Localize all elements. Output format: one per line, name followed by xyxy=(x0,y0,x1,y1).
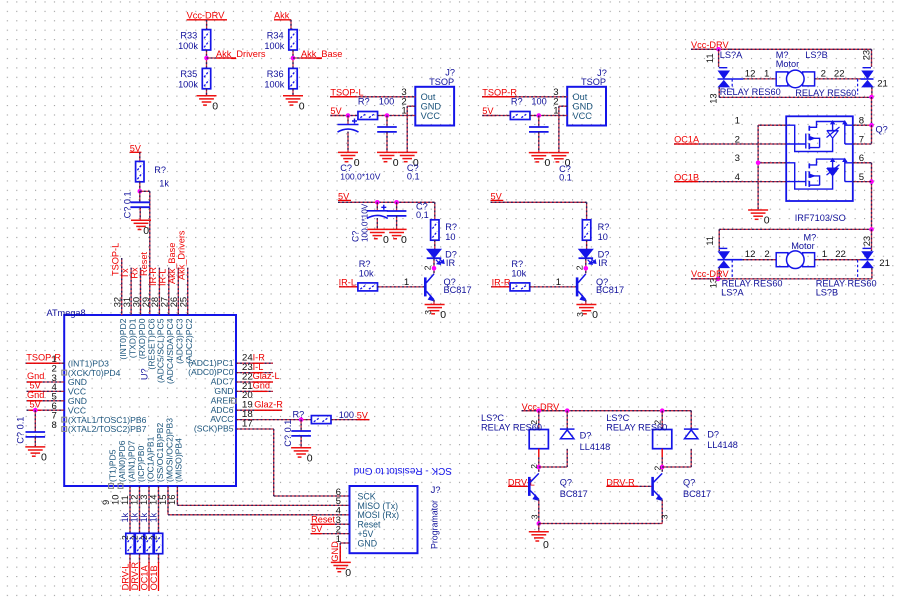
net DRV-R wire xyxy=(607,485,652,487)
unconnected pin 8 square xyxy=(62,427,67,432)
wire bottom rail top motor xyxy=(719,96,871,98)
svg-text:R?: R? xyxy=(154,165,166,175)
svg-text:Rx: Rx xyxy=(129,267,139,279)
diode D? LL4148 right xyxy=(684,429,699,439)
transistor Q? BC817 relay left xyxy=(529,473,539,500)
svg-text:0: 0 xyxy=(545,157,551,169)
svg-text:0.1: 0.1 xyxy=(559,172,572,182)
wire junction to ceramic xyxy=(396,202,398,211)
wire rail corner down to contact LS?B xyxy=(871,49,873,67)
junction reset node xyxy=(138,189,143,194)
wire electrolytic to ground xyxy=(347,132,349,153)
svg-text:(ICP)PB0: (ICP)PB0 xyxy=(136,445,146,482)
wire junction to electrolytic xyxy=(376,202,378,211)
svg-text:1: 1 xyxy=(764,68,769,79)
svg-text:LS?A: LS?A xyxy=(720,50,743,60)
svg-text:5V: 5V xyxy=(30,399,42,409)
ground 0 ceramic IR left xyxy=(387,229,407,238)
resistor R? 10 IR left xyxy=(431,220,439,240)
transistor Q? BC817 IR left xyxy=(425,274,434,301)
unconnected pin 7 square xyxy=(62,417,67,422)
wire net Akk_Drivers to pin 25 xyxy=(187,268,189,315)
relay coil LS?C left xyxy=(529,430,548,449)
svg-text:Akk_Drivers: Akk_Drivers xyxy=(216,49,266,59)
svg-text:100.0*10V: 100.0*10V xyxy=(361,203,370,242)
junction Akk_Base xyxy=(291,56,296,61)
junction at ceramic C? xyxy=(385,113,390,118)
dashed actuator LS?A bottom xyxy=(731,260,733,277)
svg-text:DRV-R: DRV-R xyxy=(606,477,635,487)
svg-text:BC817: BC817 xyxy=(444,285,472,295)
svg-text:0: 0 xyxy=(307,452,313,464)
svg-text:2: 2 xyxy=(130,535,140,540)
wire 5V rail to resistor xyxy=(330,115,358,117)
unconnected pin 20 square xyxy=(231,398,236,403)
svg-text:(ADC4/SDA)PC4: (ADC4/SDA)PC4 xyxy=(165,318,175,384)
svg-text:LS?B: LS?B xyxy=(816,288,838,298)
svg-text:1: 1 xyxy=(822,249,827,260)
net Gnd wire pin 3 xyxy=(27,381,65,383)
wire ceramic to ground xyxy=(386,132,388,153)
svg-text:1k: 1k xyxy=(130,512,140,522)
svg-text:11: 11 xyxy=(704,53,715,63)
svg-text:11: 11 xyxy=(704,236,715,246)
svg-text:23: 23 xyxy=(861,50,872,60)
wire net IR-L to pin 27 xyxy=(168,268,170,315)
junction emitter ground rail xyxy=(537,521,542,526)
svg-text:2: 2 xyxy=(120,535,130,540)
svg-text:(AIN1)PD7: (AIN1)PD7 xyxy=(126,440,136,482)
svg-text:Motor: Motor xyxy=(776,59,800,69)
svg-text:R36: R36 xyxy=(267,69,284,79)
resistor R36 xyxy=(289,68,297,88)
svg-text:RELAY RES60: RELAY RES60 xyxy=(795,88,856,98)
wire emitter to ground xyxy=(585,300,587,305)
transistor Q? BC817 relay right xyxy=(653,473,663,500)
svg-text:1k: 1k xyxy=(139,512,149,522)
svg-text:21: 21 xyxy=(879,258,890,269)
unconnected pin 9 square xyxy=(109,484,114,489)
svg-text:IR-L: IR-L xyxy=(339,277,356,287)
ground 0 relay drivers xyxy=(529,532,549,541)
svg-text:IR-L: IR-L xyxy=(158,269,168,286)
wire common emitter rail xyxy=(539,523,662,525)
svg-text:OC1B: OC1B xyxy=(149,565,159,590)
wire resistor to LED xyxy=(586,240,588,249)
wire junction to electrolytic cap xyxy=(347,116,349,125)
svg-text:Glaz-R: Glaz-R xyxy=(254,399,283,409)
svg-text:13: 13 xyxy=(708,93,719,103)
junction top rail right bottom motor xyxy=(869,227,874,232)
resistor R? 1k reset xyxy=(136,161,144,181)
wire junction down to contact LS?A xyxy=(718,49,720,67)
svg-text:J?: J? xyxy=(431,485,441,495)
wire resistor to 5V label xyxy=(331,419,369,421)
svg-text:100.0*10V: 100.0*10V xyxy=(340,171,380,181)
net IR-R wire xyxy=(491,286,510,288)
svg-text:R35: R35 xyxy=(180,69,197,79)
wire diode anode return right xyxy=(662,466,691,468)
resistor R33 xyxy=(202,30,210,50)
wire to coil LS?C right xyxy=(661,411,663,430)
svg-text:2: 2 xyxy=(652,466,662,471)
net wire pin 16 MISO to programmer xyxy=(176,486,178,505)
svg-text:5V: 5V xyxy=(482,106,494,116)
svg-text:100k: 100k xyxy=(178,41,198,51)
wire contact LS?B to Vcc rail xyxy=(871,268,873,279)
wire pin 14 to 1k resistor xyxy=(158,486,160,534)
wire ceramic to ground xyxy=(396,216,398,230)
motor M? top xyxy=(776,70,814,88)
ground 0 electrolytic IR left xyxy=(367,229,387,238)
svg-text:TSOP: TSOP xyxy=(429,77,454,87)
svg-text:5V: 5V xyxy=(330,106,342,116)
resistor R35 xyxy=(202,68,210,88)
wire Vcc-DRV top rail xyxy=(730,48,871,50)
ground 0 IR right transistor xyxy=(576,305,596,314)
wire to coil LS?C left xyxy=(538,411,540,430)
LED D? IR left xyxy=(427,249,444,264)
net 5V wire programmer xyxy=(311,533,350,535)
svg-text:VCC: VCC xyxy=(573,111,593,121)
wire 5V rail IR left xyxy=(338,201,435,203)
wire Vcc-DRV bottom rail xyxy=(691,278,872,280)
wire GND pin 2 to ground xyxy=(559,105,567,107)
svg-text:3: 3 xyxy=(735,153,740,164)
net wire pin 15 MOSI to programmer xyxy=(167,486,169,515)
junction bottom rail right top motor xyxy=(869,95,874,100)
svg-text:R34: R34 xyxy=(267,31,284,41)
ground 0 on TSOP-R pin 2 xyxy=(549,153,569,162)
junction pin 8 xyxy=(869,123,874,128)
junction coil collector diode left xyxy=(537,465,542,470)
wire electrolytic to ground xyxy=(376,218,378,229)
svg-text:DRV-R: DRV-R xyxy=(130,562,140,591)
wire C? to ground xyxy=(139,207,141,220)
svg-text:Akk_Drivers: Akk_Drivers xyxy=(177,230,187,280)
wire diode anode return left xyxy=(539,466,567,468)
wire 5V rail to resistor xyxy=(482,115,510,117)
svg-text:23: 23 xyxy=(861,236,872,246)
capacitor C? 100.0*10V electrolytic xyxy=(338,119,359,133)
svg-text:IR-R: IR-R xyxy=(492,277,511,287)
wire junction to C? 0.1 xyxy=(34,410,36,432)
wire net TSOP-L to pin 32 xyxy=(121,258,123,315)
svg-text:Gnd: Gnd xyxy=(253,381,270,391)
junction LED collector right xyxy=(584,266,589,271)
ground 0 under R35 xyxy=(197,96,217,105)
svg-text:LS?B: LS?B xyxy=(805,50,827,60)
wire GND pin 2 to ground xyxy=(407,105,415,107)
coil pin stub red left xyxy=(538,449,540,458)
wire junction to cap xyxy=(538,116,540,128)
net label DRV-L xyxy=(129,562,131,591)
svg-text:DRV-L: DRV-L xyxy=(120,563,130,590)
dashed actuator LS?B top xyxy=(857,79,859,95)
net label OC1A xyxy=(148,562,150,591)
svg-text:J?: J? xyxy=(445,67,455,77)
wire pin 8 to top motor xyxy=(853,124,872,126)
net TSOP-R wire pin 1 xyxy=(26,362,65,364)
wire LED to collector xyxy=(585,259,587,274)
svg-text:Motor: Motor xyxy=(791,241,815,251)
wire source column to ground xyxy=(757,125,759,210)
connector J? TSOP right xyxy=(567,87,606,126)
unconnected pin 10 square xyxy=(118,484,123,489)
svg-text:SCK - Resistot to Gnd: SCK - Resistot to Gnd xyxy=(354,465,452,476)
svg-text:Q?: Q? xyxy=(683,477,695,487)
wire 5V to R? xyxy=(139,152,141,161)
svg-text:0: 0 xyxy=(764,215,770,227)
ground 0 at VCC cap xyxy=(25,447,45,456)
svg-text:100: 100 xyxy=(531,96,546,106)
junction LED collector left xyxy=(432,266,437,271)
wire junction to cap xyxy=(300,420,302,431)
ground 0 on TSOP-L pin 2 xyxy=(397,152,417,161)
ground 0 under electrolytic xyxy=(338,152,358,161)
net TSOP-R wire to pin 3 xyxy=(482,96,567,98)
wire R36 to ground xyxy=(292,89,294,96)
capacitor C? 0.1 right TSOP xyxy=(529,127,549,132)
svg-text:Q?: Q? xyxy=(560,477,572,487)
wire motor to right contact bottom xyxy=(815,259,861,261)
net I-L wire pin 23 xyxy=(236,372,273,374)
svg-text:(SS/OC1B)PB2: (SS/OC1B)PB2 xyxy=(155,423,165,482)
net AVCC wire pin 18 xyxy=(236,419,311,421)
svg-text:Akk_Base: Akk_Base xyxy=(301,49,342,59)
wire Vcc-DRV relay rail xyxy=(522,410,692,412)
wire diode cathode left xyxy=(566,411,568,429)
wire resistor to label OC1B xyxy=(158,554,160,563)
resistor R? 10 IR right xyxy=(582,220,590,240)
svg-text:10: 10 xyxy=(445,232,455,242)
svg-text:0: 0 xyxy=(592,309,598,321)
wire pin 7 riser xyxy=(871,125,873,144)
svg-text:TSOP: TSOP xyxy=(581,77,606,87)
wire resistor to VCC pin 1 xyxy=(530,115,567,117)
svg-text:3: 3 xyxy=(660,514,670,519)
net 5V wire pin 4 xyxy=(27,390,65,392)
svg-text:2: 2 xyxy=(764,249,769,260)
svg-text:IR: IR xyxy=(446,258,456,268)
wire emitter to ground xyxy=(433,300,435,305)
net GND wire programmer xyxy=(340,542,349,544)
resistor R? 10k IR right xyxy=(510,283,530,291)
svg-text:Q?: Q? xyxy=(876,125,888,135)
svg-text:RELAY RES60: RELAY RES60 xyxy=(481,423,542,433)
net OC1A wire xyxy=(674,143,786,145)
wire net Rx to pin 30 xyxy=(140,268,142,315)
capacitor C? 0.1 reset xyxy=(130,202,150,207)
wire net Akk_Base to pin 26 xyxy=(177,268,179,315)
svg-text:R?: R? xyxy=(358,96,370,106)
svg-text:5V: 5V xyxy=(311,524,323,534)
svg-text:Vcc-DRV: Vcc-DRV xyxy=(187,11,225,21)
net 5V wire pin 6 xyxy=(27,409,65,411)
wire rail to contact LS?A bottom xyxy=(718,229,720,251)
wire net IR-R to pin 28 xyxy=(158,268,160,315)
svg-text:OC1A: OC1A xyxy=(139,565,149,591)
svg-text:100k: 100k xyxy=(264,41,284,51)
wire coil to collector left xyxy=(538,457,540,472)
svg-text:BC817: BC817 xyxy=(560,489,588,499)
svg-text:22: 22 xyxy=(835,249,846,260)
svg-text:0: 0 xyxy=(345,567,351,579)
ground 0 IR left transistor xyxy=(425,305,445,314)
relay contact LS?B bottom xyxy=(860,248,873,267)
wire contact to Vcc rail left xyxy=(718,268,720,279)
svg-text:22: 22 xyxy=(834,68,845,79)
wire cap to ground xyxy=(300,436,302,448)
wire contact LS?B to junction xyxy=(871,87,873,97)
svg-text:1k: 1k xyxy=(159,179,169,189)
wire emitter to ground rail left xyxy=(538,500,540,524)
svg-text:2: 2 xyxy=(821,68,826,79)
connector J? Programator body xyxy=(350,486,418,553)
svg-text:R?: R? xyxy=(293,410,305,420)
svg-text:GND: GND xyxy=(358,538,378,548)
transistor Q? BC817 IR right xyxy=(577,274,586,301)
svg-text:(MISO)PB4: (MISO)PB4 xyxy=(174,438,184,482)
svg-text:OC1A: OC1A xyxy=(674,135,700,145)
svg-text:(T1)PD5: (T1)PD5 xyxy=(107,449,117,482)
wire coil to collector right xyxy=(661,457,663,472)
svg-text:(OC1A)PB1: (OC1A)PB1 xyxy=(145,436,155,482)
relay coil LS?C right xyxy=(653,430,672,449)
svg-text:(RXD)PD0: (RXD)PD0 xyxy=(137,318,147,359)
svg-text:LS?C: LS?C xyxy=(481,413,504,423)
net Reset wire programmer xyxy=(311,523,350,525)
svg-text:IRF7103/SO: IRF7103/SO xyxy=(795,213,846,223)
junction 5V decoupling xyxy=(33,408,38,413)
svg-text:8: 8 xyxy=(52,420,57,431)
wire Akk to R34 xyxy=(290,20,292,30)
svg-text:100: 100 xyxy=(379,96,394,106)
ground 0 programmer xyxy=(331,562,351,571)
wire net Tx to pin 31 xyxy=(130,268,132,315)
svg-text:R?: R? xyxy=(445,222,457,232)
resistor R? 1k DRV-L xyxy=(126,533,134,553)
svg-text:0: 0 xyxy=(393,157,399,169)
wire junction to C? xyxy=(139,191,141,202)
LED D? IR right xyxy=(579,249,596,264)
svg-text:(SCK)PB5: (SCK)PB5 xyxy=(194,424,234,434)
wire R34 to junction xyxy=(292,50,294,68)
svg-text:21: 21 xyxy=(877,79,888,90)
wire cap to ground xyxy=(34,437,36,447)
svg-text:BC817: BC817 xyxy=(596,285,624,295)
mosfet 2 inside IRF7103 xyxy=(786,158,853,189)
wire pin 12 to 1k resistor xyxy=(139,486,141,534)
svg-text:C? 0.1: C? 0.1 xyxy=(123,191,133,218)
wire 5V rail IR right xyxy=(491,201,587,203)
svg-text:100: 100 xyxy=(339,410,354,420)
diode D? LL4148 left xyxy=(560,429,575,439)
svg-text:R33: R33 xyxy=(180,31,197,41)
svg-text:R?: R? xyxy=(598,222,610,232)
ground 0 reset cap xyxy=(131,220,151,229)
svg-text:GND: GND xyxy=(330,541,340,562)
svg-text:OC1B: OC1B xyxy=(674,172,699,182)
junction pin 5 xyxy=(869,179,874,184)
ground 0 AREF xyxy=(291,448,311,457)
svg-text:2: 2 xyxy=(574,265,584,270)
svg-text:0.1: 0.1 xyxy=(416,210,429,220)
capacitor C? 0.1 IR left xyxy=(387,211,407,216)
svg-text:0: 0 xyxy=(440,309,446,321)
svg-text:1: 1 xyxy=(556,277,561,288)
net label Akk_Base xyxy=(293,57,322,59)
wire resistor to label DRV-R xyxy=(139,554,141,563)
svg-text:10: 10 xyxy=(598,232,608,242)
wire pin 11 to 1k resistor xyxy=(129,486,131,534)
svg-text:100k: 100k xyxy=(264,80,284,90)
junction diode left xyxy=(565,408,570,413)
svg-text:10k: 10k xyxy=(511,268,526,278)
net OC1B wire xyxy=(674,181,786,183)
svg-text:10k: 10k xyxy=(359,268,374,278)
svg-text:0: 0 xyxy=(543,539,549,551)
IC U? ATmega8 body xyxy=(64,315,236,486)
wire resistor to base xyxy=(378,286,425,288)
svg-text:D?: D? xyxy=(707,429,719,439)
net label Akk_Drivers xyxy=(207,57,237,59)
svg-text:BC817: BC817 xyxy=(683,489,711,499)
svg-text:2: 2 xyxy=(423,265,433,270)
resistor R? 100 left TSOP xyxy=(358,112,378,120)
svg-text:2: 2 xyxy=(529,464,539,469)
junction AREF cap xyxy=(299,417,304,422)
resistor R? 10k IR left xyxy=(358,283,378,291)
wire LED to collector xyxy=(433,259,435,274)
wire top rail bottom motor xyxy=(719,228,871,230)
net Glaz-R wire pin 19 xyxy=(236,409,282,411)
wire Vcc-DRV to R33 xyxy=(206,20,208,30)
relay contact LS?B top xyxy=(861,68,874,87)
svg-text:1: 1 xyxy=(735,116,740,127)
junction source column pin 3 xyxy=(756,161,761,166)
capacitor C? 0.1 left TSOP xyxy=(377,127,397,132)
net Gnd wire pin 5 xyxy=(27,400,65,402)
svg-text:0: 0 xyxy=(299,100,305,112)
net wire pin 17 SCK to programmer xyxy=(236,428,274,430)
wire emitter to ground rail right xyxy=(661,500,663,524)
svg-text:C? 0.1: C? 0.1 xyxy=(283,420,293,447)
net Gnd wire pin 21 xyxy=(236,390,273,392)
svg-text:0: 0 xyxy=(143,225,149,237)
ground 0 under ceramic xyxy=(377,152,397,161)
wire cap to ground xyxy=(538,132,540,153)
svg-text:VCC: VCC xyxy=(421,111,441,121)
svg-text:12: 12 xyxy=(745,249,756,260)
unconnected pin 2 square xyxy=(62,370,67,375)
svg-text:0: 0 xyxy=(212,100,218,112)
junction relay coil right xyxy=(660,408,665,413)
svg-text:IR: IR xyxy=(598,258,608,268)
wire R? to junction xyxy=(139,182,141,192)
svg-text:C? 0.1: C? 0.1 xyxy=(16,417,26,444)
junction ceramic IR left xyxy=(394,200,399,205)
svg-text:Akk: Akk xyxy=(274,11,290,21)
wire rail corner to diode right xyxy=(690,411,692,429)
resistor R34 xyxy=(289,30,297,50)
junction Vcc rail left bottom motor xyxy=(716,277,721,282)
capacitor C? 0.1 at VCC xyxy=(26,432,46,437)
junction coil collector diode right xyxy=(660,465,665,470)
wire R35 to ground xyxy=(206,89,208,96)
coil pin stub red right xyxy=(661,449,663,458)
svg-text:0: 0 xyxy=(41,452,47,464)
